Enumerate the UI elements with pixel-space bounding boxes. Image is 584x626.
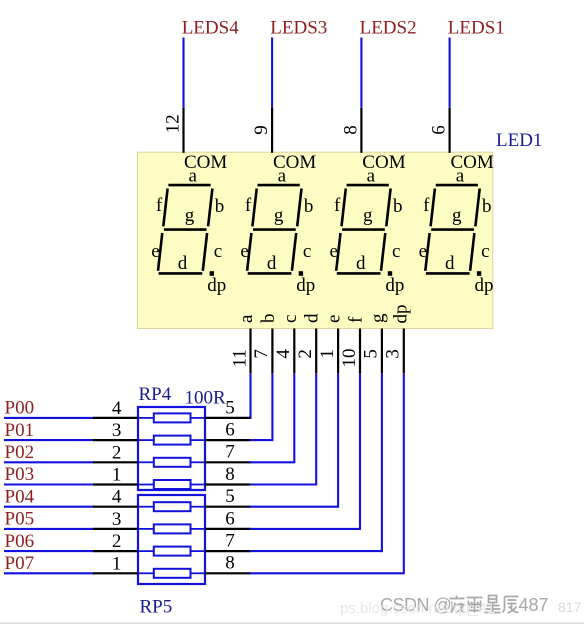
svg-text:3: 3 <box>112 509 122 530</box>
svg-text:f: f <box>334 195 341 216</box>
svg-text:5: 5 <box>225 486 235 507</box>
svg-text:1: 1 <box>317 349 338 359</box>
svg-text:COM: COM <box>184 152 227 173</box>
svg-text:dp: dp <box>296 275 315 296</box>
svg-text:LEDS4: LEDS4 <box>182 18 240 39</box>
svg-text:dp: dp <box>207 275 226 296</box>
svg-text:b: b <box>304 196 314 217</box>
svg-text:dp: dp <box>391 305 412 324</box>
svg-text:P03: P03 <box>5 464 35 485</box>
svg-text:P06: P06 <box>5 531 35 552</box>
svg-text:f: f <box>245 195 252 216</box>
svg-text:g: g <box>185 205 195 226</box>
svg-text:b: b <box>482 196 492 217</box>
svg-text:g: g <box>363 205 373 226</box>
svg-text:2: 2 <box>112 442 122 463</box>
svg-text:3: 3 <box>383 349 404 359</box>
svg-text:e: e <box>419 241 427 262</box>
svg-text:817: 817 <box>558 599 582 615</box>
svg-text:b: b <box>215 196 225 217</box>
svg-text:11: 11 <box>229 349 250 367</box>
svg-text:RP5: RP5 <box>140 597 173 618</box>
svg-text:LEDS2: LEDS2 <box>360 18 417 39</box>
svg-text:COM: COM <box>273 152 316 173</box>
svg-text:4: 4 <box>112 487 122 508</box>
svg-text:487: 487 <box>519 595 549 615</box>
svg-text:c: c <box>214 241 222 262</box>
svg-text:9: 9 <box>251 125 272 135</box>
svg-text:2: 2 <box>295 349 316 359</box>
svg-text:b: b <box>393 196 403 217</box>
svg-text:P07: P07 <box>5 553 35 574</box>
svg-text:8: 8 <box>341 125 362 135</box>
svg-text:b: b <box>258 314 279 324</box>
svg-text:d: d <box>302 313 323 323</box>
svg-text:e: e <box>329 241 337 262</box>
svg-text:1: 1 <box>112 553 122 574</box>
svg-text:7: 7 <box>225 442 235 463</box>
svg-text:1: 1 <box>112 465 122 486</box>
svg-text:7: 7 <box>251 349 272 359</box>
svg-text:2: 2 <box>112 531 122 552</box>
svg-text:5: 5 <box>361 349 382 359</box>
svg-text:4: 4 <box>273 349 294 359</box>
svg-text:P04: P04 <box>5 486 35 507</box>
svg-text:dp: dp <box>475 275 494 296</box>
svg-text:6: 6 <box>225 420 235 441</box>
svg-text:COM: COM <box>451 152 494 173</box>
svg-text:12: 12 <box>162 114 183 133</box>
svg-text:g: g <box>274 205 284 226</box>
svg-text:RP4: RP4 <box>139 384 172 405</box>
svg-text:LEDS1: LEDS1 <box>448 18 505 39</box>
svg-text:c: c <box>392 241 400 262</box>
svg-text:P02: P02 <box>5 442 35 463</box>
svg-text:dp: dp <box>385 275 404 296</box>
svg-text:7: 7 <box>225 531 235 552</box>
svg-text:P00: P00 <box>5 398 35 419</box>
svg-text:d: d <box>445 253 455 274</box>
svg-text:f: f <box>346 316 367 323</box>
svg-text:e: e <box>151 241 159 262</box>
svg-text:e: e <box>324 315 345 323</box>
svg-text:6: 6 <box>225 508 235 529</box>
svg-text:e: e <box>240 241 248 262</box>
svg-text:LEDS3: LEDS3 <box>270 18 327 39</box>
svg-text:ps.blog.csdn.net/qq_41: ps.blog.csdn.net/qq_41 <box>340 600 495 617</box>
svg-text:5: 5 <box>225 397 235 418</box>
svg-text:f: f <box>423 195 430 216</box>
svg-text:c: c <box>481 241 489 262</box>
svg-text:c: c <box>303 241 311 262</box>
svg-text:3: 3 <box>112 420 122 441</box>
svg-text:a: a <box>236 314 257 323</box>
svg-text:f: f <box>156 195 163 216</box>
svg-text:8: 8 <box>225 464 235 485</box>
svg-text:100R: 100R <box>185 388 227 409</box>
svg-text:8: 8 <box>225 553 235 574</box>
svg-text:6: 6 <box>429 125 450 135</box>
svg-text:c: c <box>280 315 301 323</box>
svg-text:d: d <box>178 253 188 274</box>
svg-text:g: g <box>367 313 388 323</box>
svg-text:10: 10 <box>339 349 360 368</box>
svg-text:LED1: LED1 <box>496 130 542 151</box>
svg-text:P05: P05 <box>5 509 35 530</box>
svg-text:4: 4 <box>112 398 122 419</box>
svg-text:g: g <box>452 205 462 226</box>
svg-text:P01: P01 <box>5 420 35 441</box>
svg-text:d: d <box>356 253 366 274</box>
svg-text:COM: COM <box>362 152 405 173</box>
svg-text:d: d <box>267 253 277 274</box>
